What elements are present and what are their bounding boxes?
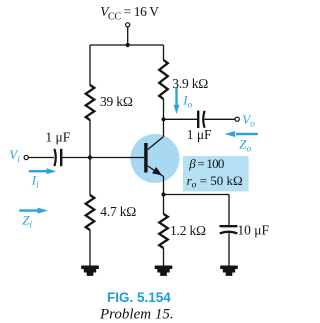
svg-text:β = 100: β = 100 <box>188 156 224 171</box>
svg-text:1.2 kΩ: 1.2 kΩ <box>170 223 206 238</box>
svg-text:FIG. 5.154: FIG. 5.154 <box>107 290 171 305</box>
svg-text:1 μF: 1 μF <box>45 129 70 144</box>
svg-text:1 μF: 1 μF <box>187 127 212 142</box>
svg-text:Problem 15.: Problem 15. <box>99 306 174 322</box>
svg-text:Vi: Vi <box>9 147 20 165</box>
svg-text:Zo: Zo <box>239 137 251 155</box>
svg-text:3.9 kΩ: 3.9 kΩ <box>172 76 208 91</box>
svg-text:4.7 kΩ: 4.7 kΩ <box>100 204 136 219</box>
svg-text:Ii: Ii <box>31 173 39 191</box>
svg-text:VCC = 16 V: VCC = 16 V <box>100 4 159 23</box>
svg-text:10 μF: 10 μF <box>237 222 269 237</box>
svg-text:Io: Io <box>182 93 192 111</box>
svg-text:Vo: Vo <box>242 112 255 130</box>
svg-text:Zi: Zi <box>22 213 32 231</box>
svg-text:39 kΩ: 39 kΩ <box>100 94 133 109</box>
